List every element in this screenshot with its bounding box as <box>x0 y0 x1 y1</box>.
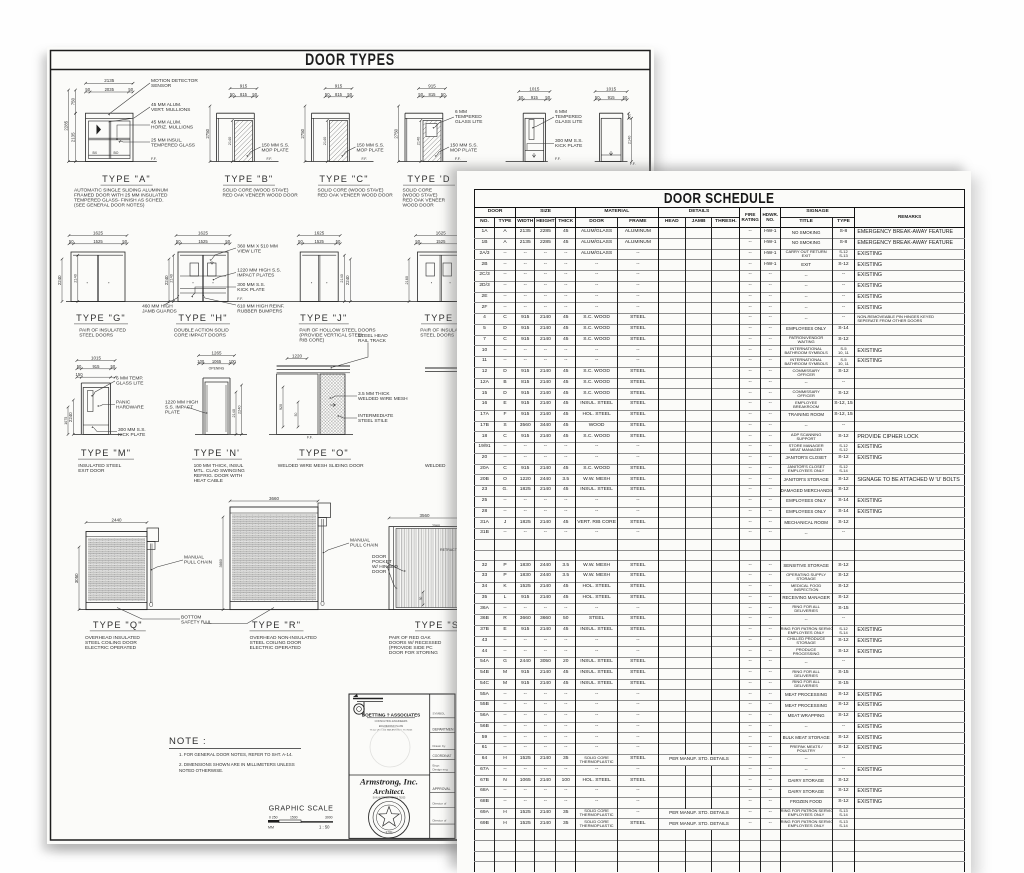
svg-text:TYPE "C": TYPE "C" <box>319 174 368 184</box>
svg-text:2140: 2140 <box>228 137 232 145</box>
svg-text:2750: 2750 <box>205 128 210 138</box>
svg-text:50: 50 <box>418 92 423 97</box>
svg-text:NOTE :: NOTE : <box>169 736 207 747</box>
svg-text:0 250: 0 250 <box>269 816 278 820</box>
svg-text:915: 915 <box>240 83 248 88</box>
svg-text:TX 42, UNIT 410 SAN ANTONIO,: TX 42, UNIT 410 SAN ANTONIO, TX 78245 <box>370 728 413 731</box>
svg-text:BO: BO <box>114 151 119 155</box>
svg-text:50: 50 <box>111 364 116 369</box>
svg-text:50: 50 <box>298 239 303 244</box>
svg-text:RETRACT: RETRACT <box>440 548 458 552</box>
svg-text:GLASS LITE: GLASS LITE <box>116 381 143 387</box>
svg-text:2240: 2240 <box>345 275 350 285</box>
svg-text:WELDED WIRE MESH: WELDED WIRE MESH <box>358 396 408 402</box>
svg-text:F.F.: F.F. <box>630 162 636 166</box>
svg-text:3660: 3660 <box>219 559 223 567</box>
svg-text:Drawn by:: Drawn by: <box>433 744 447 748</box>
svg-text:50: 50 <box>419 597 423 601</box>
svg-text:100: 100 <box>197 359 205 364</box>
svg-text:MOP PLATE: MOP PLATE <box>357 148 384 154</box>
svg-text:TEMPERED GLASS: TEMPERED GLASS <box>151 143 195 149</box>
svg-text:VERT. MULLIONS: VERT. MULLIONS <box>151 107 190 113</box>
svg-text:PLATE: PLATE <box>165 410 180 416</box>
svg-text:2560: 2560 <box>432 524 440 528</box>
svg-text:3050: 3050 <box>74 573 79 583</box>
svg-text:50: 50 <box>545 95 550 100</box>
svg-text:MM: MM <box>268 826 274 830</box>
svg-text:2140: 2140 <box>323 137 327 145</box>
svg-text:920: 920 <box>279 404 283 410</box>
svg-text:50: 50 <box>519 95 524 100</box>
svg-text:2240: 2240 <box>57 275 62 285</box>
svg-text:50: 50 <box>85 87 90 92</box>
svg-text:DOOR: DOOR <box>372 569 387 575</box>
svg-text:GLASS LITE: GLASS LITE <box>455 119 482 125</box>
door type A elevation <box>86 113 134 161</box>
svg-text:WELDED WIRE MESH SLIDING DOOR: WELDED WIRE MESH SLIDING DOOR <box>278 463 364 469</box>
svg-text:SYMBOL: SYMBOL <box>433 712 446 716</box>
svg-text:2240: 2240 <box>68 412 73 422</box>
svg-text:50: 50 <box>294 413 298 417</box>
svg-text:915: 915 <box>428 83 436 88</box>
svg-text:50: 50 <box>128 87 133 92</box>
svg-text:1625: 1625 <box>314 230 325 235</box>
svg-text:1075: 1075 <box>64 417 68 425</box>
svg-text:2240: 2240 <box>164 275 169 285</box>
svg-text:1 : 50: 1 : 50 <box>319 825 330 830</box>
svg-text:50: 50 <box>325 92 330 97</box>
row 2 ground line <box>66 301 464 303</box>
svg-text:TYPE "O": TYPE "O" <box>299 448 349 458</box>
svg-text:Director of: Director of <box>433 819 447 823</box>
svg-text:F.F.: F.F. <box>237 297 243 301</box>
svg-text:50: 50 <box>77 364 82 369</box>
svg-text:50: 50 <box>69 239 74 244</box>
svg-text:TYPE "R": TYPE "R" <box>252 620 301 630</box>
svg-text:RIB CORE): RIB CORE) <box>299 338 324 344</box>
svg-text:1015: 1015 <box>529 86 540 91</box>
svg-text:WELDED: WELDED <box>425 463 446 469</box>
svg-text:DOOR TYPES: DOOR TYPES <box>305 50 395 69</box>
svg-text:KICK PLATE: KICK PLATE <box>555 143 582 149</box>
svg-text:2140: 2140 <box>169 274 173 282</box>
svg-text:BOETTING ? ASSOCIATES: BOETTING ? ASSOCIATES <box>362 712 420 717</box>
door type D elevation <box>404 113 406 161</box>
svg-text:3000: 3000 <box>325 816 333 820</box>
svg-text:TYPE "Q": TYPE "Q" <box>93 620 143 630</box>
svg-text:GLASS LITE: GLASS LITE <box>555 119 582 125</box>
svg-text:150: 150 <box>76 372 84 377</box>
svg-text:F.F.: F.F. <box>307 435 313 439</box>
svg-text:KICK PLATE: KICK PLATE <box>118 432 145 438</box>
svg-text:TYPE "G": TYPE "G" <box>76 313 126 323</box>
svg-text:2160: 2160 <box>405 276 409 284</box>
svg-text:F.F.: F.F. <box>362 157 368 161</box>
svg-text:Design eng: Design eng <box>433 767 449 771</box>
svg-text:50: 50 <box>230 92 235 97</box>
svg-text:50: 50 <box>225 239 230 244</box>
svg-text:1525: 1525 <box>93 239 103 244</box>
svg-text:HORIZ. MULLIONS: HORIZ. MULLIONS <box>151 125 193 131</box>
svg-text:SAFETY RAIL: SAFETY RAIL <box>181 620 212 626</box>
door type Q overhead coiling door <box>86 532 147 610</box>
svg-text:2440: 2440 <box>111 517 122 522</box>
svg-text:TYPE ": TYPE " <box>424 313 461 323</box>
svg-text:GRAPHIC SCALE: GRAPHIC SCALE <box>269 804 334 813</box>
door type F elevation <box>598 113 600 161</box>
svg-text:2285: 2285 <box>63 120 68 130</box>
svg-text:DOOR FOR STORING: DOOR FOR STORING <box>389 650 438 656</box>
svg-text:HARDWARE: HARDWARE <box>116 405 144 411</box>
door type S slatted door with pocket <box>389 527 460 610</box>
title block frame <box>349 694 455 838</box>
svg-text:Architect.: Architect. <box>372 787 404 796</box>
svg-text:VIEW LITE: VIEW LITE <box>237 248 261 254</box>
svg-text:600: 600 <box>627 114 631 120</box>
svg-text:2750: 2750 <box>300 128 305 138</box>
svg-text:APPROVAL: APPROVAL <box>433 787 451 791</box>
svg-text:RAIL TRACK: RAIL TRACK <box>358 338 387 344</box>
svg-text:F.F.: F.F. <box>455 157 461 161</box>
svg-text:CONSULTING ENGINEERS: CONSULTING ENGINEERS <box>375 719 408 723</box>
svg-text:(SEE GENERAL DOOR NOTES): (SEE GENERAL DOOR NOTES) <box>74 203 145 209</box>
door type K elevation <box>418 252 465 302</box>
svg-text:100: 100 <box>229 359 237 364</box>
svg-text:RED OAK VENEER WOOD DOOR: RED OAK VENEER WOOD DOOR <box>223 193 299 199</box>
sheet border frame <box>51 51 651 841</box>
svg-text:STEEL DOORS: STEEL DOORS <box>79 333 113 339</box>
svg-text:Director of: Director of <box>433 802 447 806</box>
svg-text:WOOD DOOR: WOOD DOOR <box>403 203 435 209</box>
door type B elevation <box>216 113 218 161</box>
svg-text:2. DIMENSIONS SHOWN ARE IN M: 2. DIMENSIONS SHOWN ARE IN MILLIMETERS U… <box>179 762 295 767</box>
svg-text:PULL CHAIN: PULL CHAIN <box>350 543 379 549</box>
svg-text:50: 50 <box>347 92 352 97</box>
svg-text:3660: 3660 <box>269 496 280 501</box>
door type N elevation <box>202 378 204 434</box>
svg-text:1065: 1065 <box>212 359 222 364</box>
svg-text:2135: 2135 <box>70 132 75 142</box>
svg-text:PULL CHAIN: PULL CHAIN <box>184 560 213 566</box>
svg-text:1625: 1625 <box>198 230 209 235</box>
door type G elevation <box>71 252 125 302</box>
svg-text:2140: 2140 <box>627 136 631 144</box>
architect logo <box>353 698 383 700</box>
svg-text:MOP PLATE: MOP PLATE <box>450 148 477 154</box>
door type R overhead coiling door <box>230 507 318 610</box>
svg-text:1525: 1525 <box>315 239 325 244</box>
svg-text:DEPARTMEN: DEPARTMEN <box>433 727 455 731</box>
svg-text:KICK PLATE: KICK PLATE <box>237 287 264 293</box>
svg-text:2140: 2140 <box>74 274 78 282</box>
svg-text:2240: 2240 <box>237 405 241 413</box>
door type E elevation <box>522 113 524 161</box>
svg-text:F.F.: F.F. <box>151 157 157 161</box>
svg-text:TYPE "H": TYPE "H" <box>178 313 227 323</box>
svg-text:SENSOR: SENSOR <box>151 83 172 89</box>
svg-text:2035: 2035 <box>105 87 115 92</box>
svg-text:50: 50 <box>595 95 600 100</box>
svg-text:915: 915 <box>335 83 343 88</box>
svg-text:815: 815 <box>240 92 248 97</box>
svg-text:915: 915 <box>92 364 100 369</box>
door type H elevation <box>178 252 228 302</box>
svg-text:1220: 1220 <box>292 353 303 358</box>
svg-text:1015: 1015 <box>606 86 617 91</box>
door type J elevation <box>300 252 338 302</box>
svg-text:50: 50 <box>336 239 341 244</box>
svg-text:50: 50 <box>252 92 257 97</box>
svg-text:CORE IMPACT DOORS: CORE IMPACT DOORS <box>174 333 226 339</box>
svg-text:TYPE "A": TYPE "A" <box>102 174 151 184</box>
svg-text:50: 50 <box>415 239 420 244</box>
svg-text:Armstrong, Inc.: Armstrong, Inc. <box>359 777 418 787</box>
door type M elevation <box>80 383 82 434</box>
door type O sliding mesh door <box>277 365 350 367</box>
svg-text:2135: 2135 <box>104 78 115 83</box>
svg-text:2140: 2140 <box>340 274 344 282</box>
svg-text:3560: 3560 <box>419 513 430 518</box>
svg-text:50: 50 <box>623 95 628 100</box>
svg-text:ELECTRIC OPERATED: ELECTRIC OPERATED <box>85 645 137 651</box>
svg-text:1525: 1525 <box>198 239 208 244</box>
svg-text:2140: 2140 <box>417 137 421 145</box>
svg-text:50: 50 <box>122 239 127 244</box>
svg-text:STEEL STILE: STEEL STILE <box>358 418 388 424</box>
svg-text:NOTED OTHERWISE.: NOTED OTHERWISE. <box>179 768 223 773</box>
svg-text:TYPE "B": TYPE "B" <box>225 174 274 184</box>
sheet 1 : DOOR TYPES drawing sheet <box>47 47 654 844</box>
svg-text:BX: BX <box>93 151 98 155</box>
svg-text:50: 50 <box>441 92 446 97</box>
svg-text:1. FOR GENERAL DOOR NOTES, R: 1. FOR GENERAL DOOR NOTES, REFER TO SHT.… <box>179 752 293 757</box>
svg-text:1625: 1625 <box>436 230 447 235</box>
svg-text:815: 815 <box>429 92 437 97</box>
sheet title DOOR TYPES <box>305 50 395 69</box>
sheet 2 : DOOR SCHEDULE <box>457 171 971 873</box>
svg-text:1625: 1625 <box>93 230 104 235</box>
svg-text:HEAT CABLE: HEAT CABLE <box>194 478 223 484</box>
svg-text:2750: 2750 <box>393 128 398 138</box>
svg-text:3700: 3700 <box>386 830 393 834</box>
architect seal <box>369 797 410 838</box>
svg-text:1500: 1500 <box>290 816 298 820</box>
svg-text:MOP PLATE: MOP PLATE <box>262 148 289 154</box>
svg-text:COORDINAT: COORDINAT <box>433 754 452 758</box>
row 4 ground line <box>79 609 460 611</box>
svg-text:EXIT DOOR: EXIT DOOR <box>78 468 105 474</box>
svg-text:F.F.: F.F. <box>267 157 273 161</box>
svg-text:50: 50 <box>176 239 181 244</box>
svg-text:1265: 1265 <box>211 350 222 355</box>
svg-text:1525: 1525 <box>436 239 446 244</box>
svg-text:TYPE "S: TYPE "S <box>415 620 459 630</box>
svg-text:RED OAK VENEER WOOD DOOR: RED OAK VENEER WOOD DOOR <box>318 193 394 199</box>
svg-text:RUBBER BUMPERS: RUBBER BUMPERS <box>237 308 282 314</box>
svg-text:1015: 1015 <box>91 355 102 360</box>
svg-text:TYPE 'D: TYPE 'D <box>407 174 450 184</box>
svg-text:JAMB GUARDS: JAMB GUARDS <box>142 308 177 314</box>
partial rail (next sliding door) <box>425 367 457 369</box>
svg-text:TYPE "M": TYPE "M" <box>81 448 131 458</box>
svg-text:ELECTRIC OPERATED: ELECTRIC OPERATED <box>250 645 302 651</box>
svg-text:TYPE "J": TYPE "J" <box>300 313 347 323</box>
svg-text:915: 915 <box>531 95 539 100</box>
svg-text:750: 750 <box>70 97 75 105</box>
svg-text:915: 915 <box>608 95 616 100</box>
svg-text:STEEL DOORS: STEEL DOORS <box>420 333 454 339</box>
svg-text:OPENING: OPENING <box>209 367 225 371</box>
door type C elevation <box>311 113 313 161</box>
svg-text:IMPACT PLATES: IMPACT PLATES <box>237 272 274 278</box>
svg-text:2140: 2140 <box>232 409 236 417</box>
svg-text:TYPE 'N': TYPE 'N' <box>194 448 240 458</box>
title block right column rows <box>430 717 455 719</box>
svg-text:F.F.: F.F. <box>555 157 561 161</box>
svg-text:815: 815 <box>335 92 343 97</box>
